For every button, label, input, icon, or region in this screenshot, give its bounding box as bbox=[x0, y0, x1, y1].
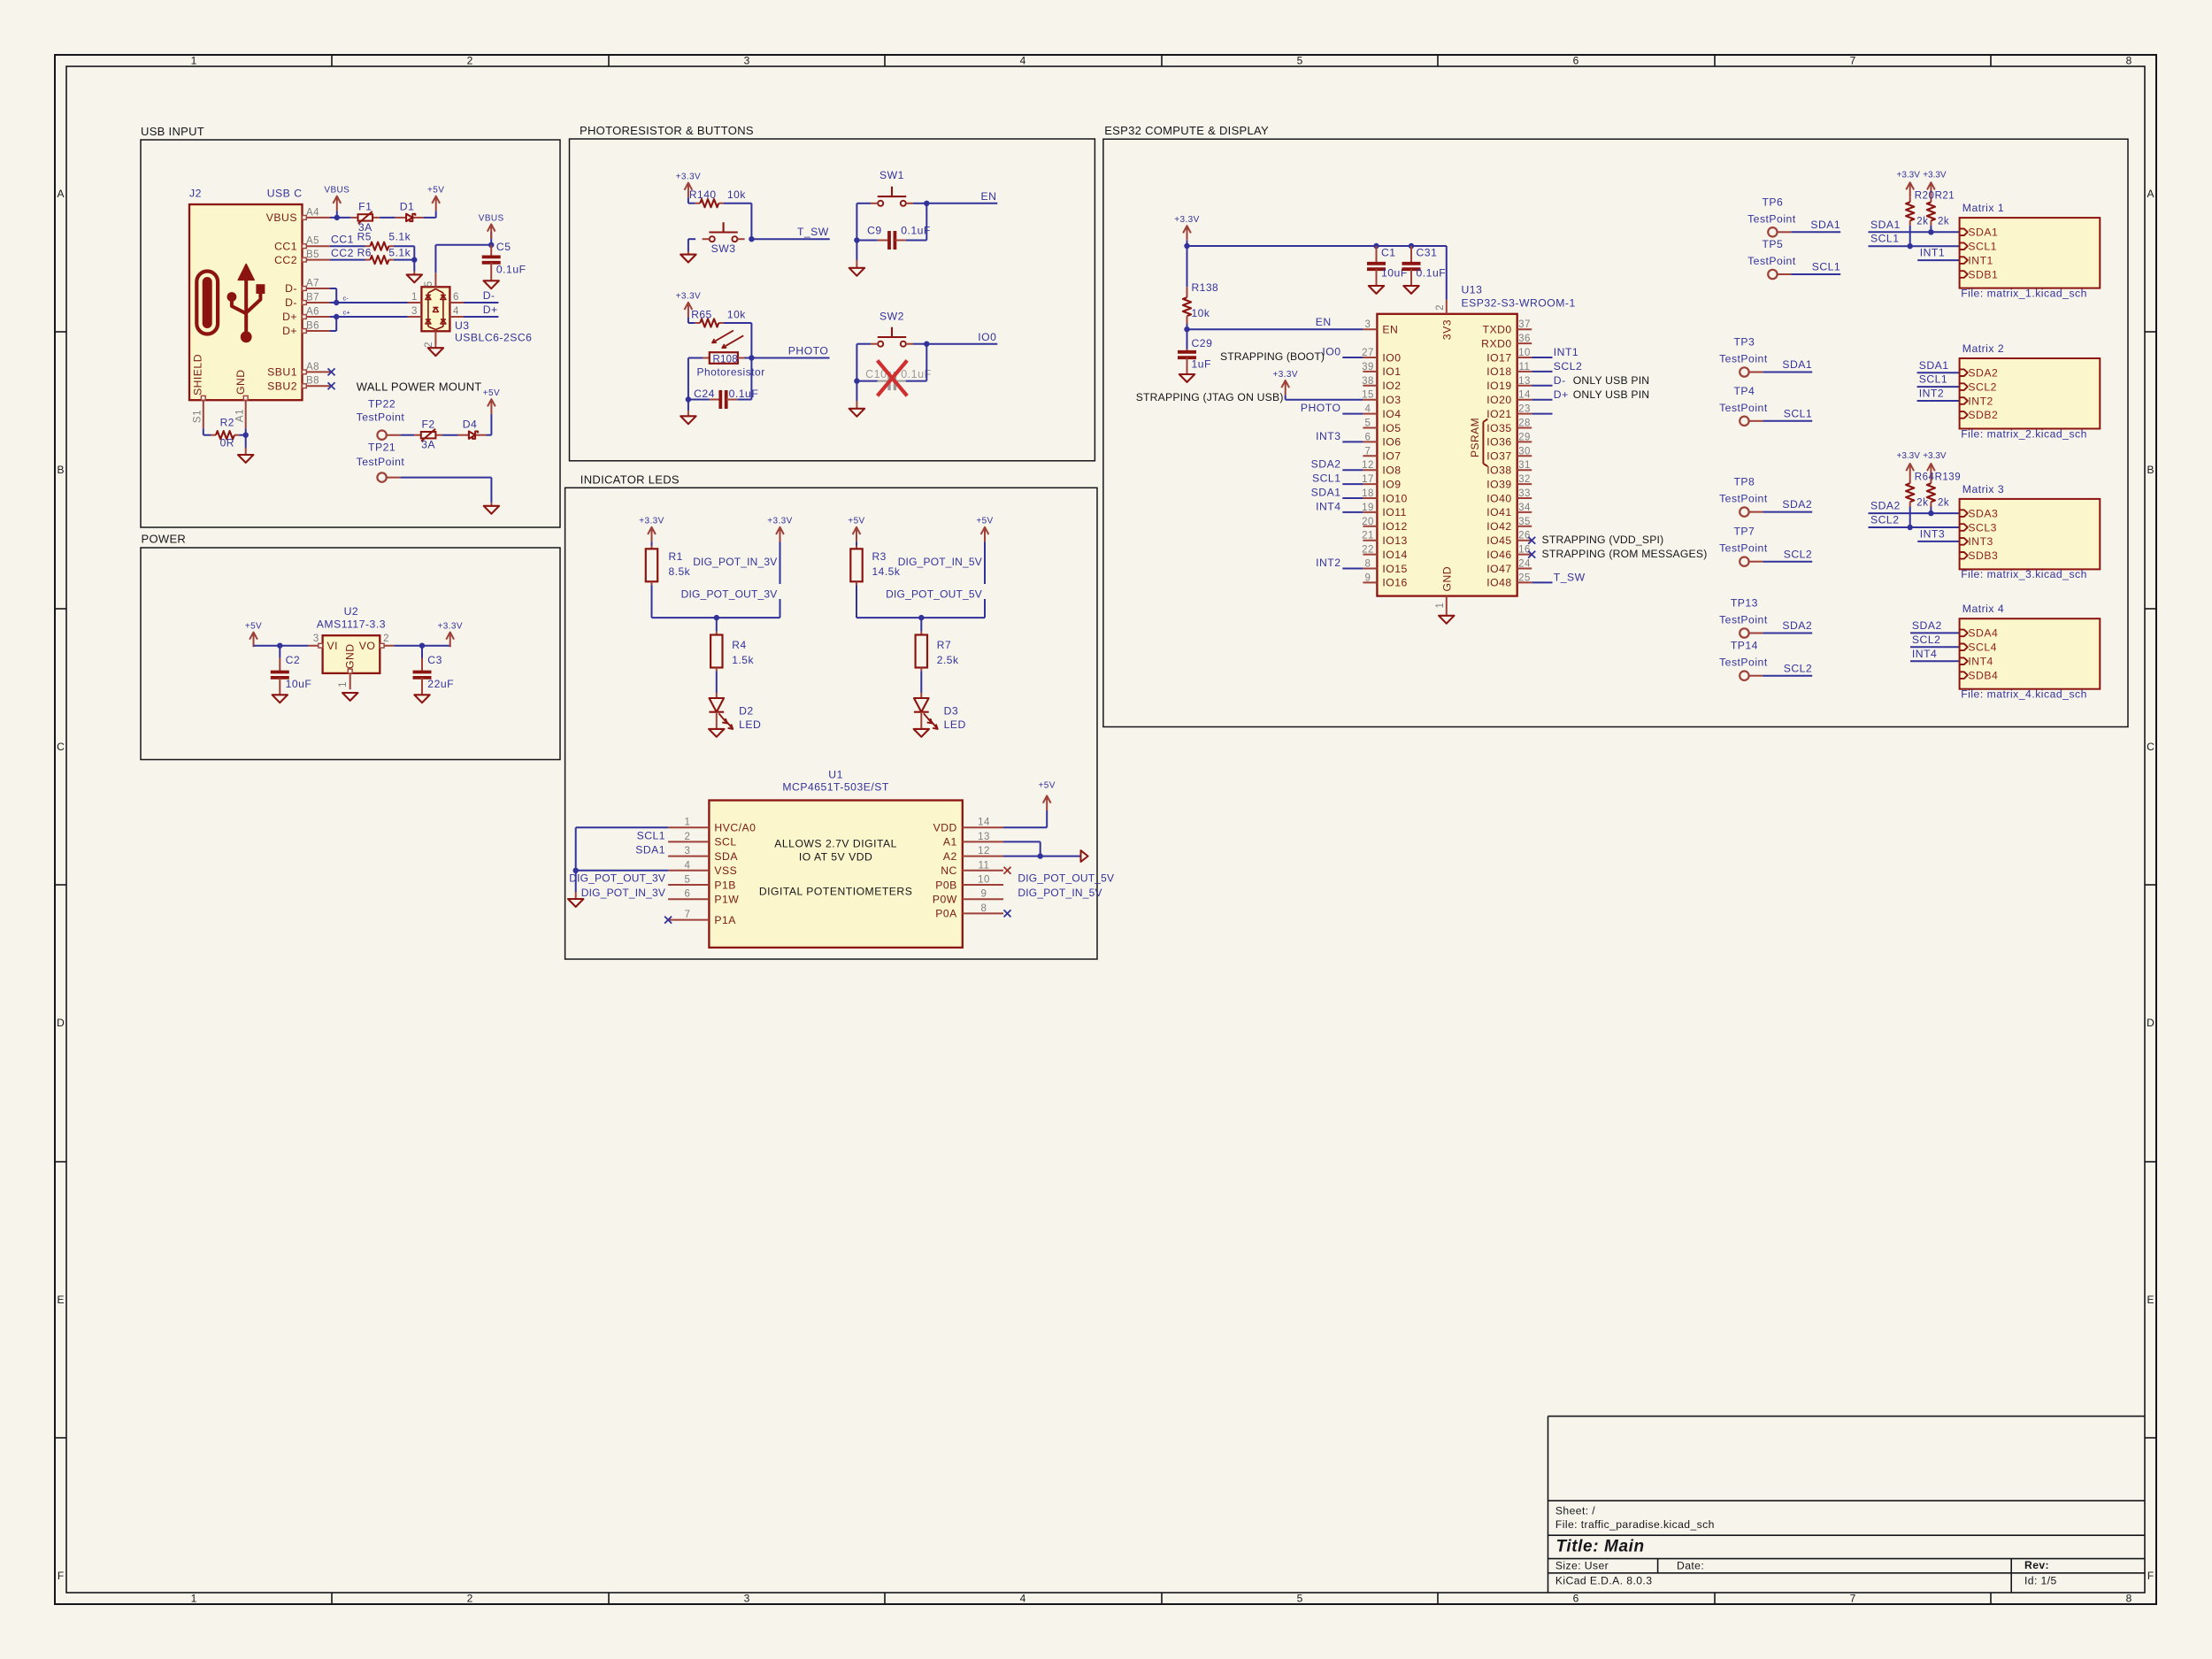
svg-text:P1A: P1A bbox=[714, 914, 736, 926]
wire R5 R6 to ground bbox=[394, 246, 414, 272]
svg-text:SDA: SDA bbox=[714, 850, 738, 863]
junction A2 bbox=[1038, 853, 1043, 858]
svg-text:File: matrix_1.kicad_sch: File: matrix_1.kicad_sch bbox=[1961, 287, 2087, 299]
svg-text:VSS: VSS bbox=[714, 864, 737, 877]
svg-text:R21: R21 bbox=[1935, 191, 1955, 202]
capacitor C9 0.1uF bbox=[856, 224, 930, 250]
svg-text:SDA2: SDA2 bbox=[1968, 367, 1998, 380]
power symbol +3.3V at R1 bbox=[639, 517, 664, 546]
svg-text:CC2: CC2 bbox=[331, 247, 354, 259]
svg-text:IO12: IO12 bbox=[1382, 520, 1407, 533]
net label INT4 to Matrix 4 bbox=[1910, 648, 1960, 661]
svg-text:IO9: IO9 bbox=[1382, 478, 1401, 490]
net label INT3 at U13 bbox=[1316, 430, 1363, 442]
svg-text:D-: D- bbox=[285, 296, 297, 309]
svg-text:INT3: INT3 bbox=[1920, 527, 1945, 540]
svg-text:SDB3: SDB3 bbox=[1968, 549, 1998, 562]
wire IO21 bbox=[1532, 413, 1552, 415]
svg-text:IO14: IO14 bbox=[1382, 549, 1407, 561]
resistor R6 5.1k bbox=[357, 246, 411, 264]
svg-text:RXD0: RXD0 bbox=[1481, 337, 1512, 349]
wire R108 left down to C24 bbox=[687, 358, 689, 400]
hierarchical sheet Matrix 2 bbox=[1960, 342, 2101, 440]
svg-text:R139: R139 bbox=[1935, 472, 1962, 482]
net label INT1 at U13 right bbox=[1532, 346, 1578, 358]
net label c- on D- wire bbox=[343, 295, 349, 303]
svg-text:F2: F2 bbox=[421, 418, 434, 430]
net label SCL2 at TP7 bbox=[1763, 548, 1812, 561]
no-connect P0A bbox=[1004, 910, 1011, 917]
wire R7 to D3 bbox=[920, 671, 922, 693]
svg-text:SBU2: SBU2 bbox=[267, 380, 297, 392]
svg-text:B8: B8 bbox=[306, 376, 319, 387]
svg-text:A: A bbox=[57, 188, 64, 200]
junction C2 bbox=[277, 643, 282, 649]
svg-text:3: 3 bbox=[313, 634, 319, 644]
no-connect NC pin11 bbox=[1004, 867, 1011, 874]
regulator U2 AMS1117-3.3 bbox=[309, 605, 395, 689]
net label INT2 to Matrix 2 bbox=[1917, 388, 1960, 401]
junction D- bbox=[334, 300, 339, 305]
svg-text:R6: R6 bbox=[357, 246, 372, 258]
svg-text:P0A: P0A bbox=[935, 908, 957, 920]
junction rail C1 bbox=[1373, 243, 1379, 249]
svg-text:SCL1: SCL1 bbox=[637, 829, 666, 841]
svg-text:WALL POWER MOUNT: WALL POWER MOUNT bbox=[357, 380, 482, 393]
svg-text:4: 4 bbox=[1365, 404, 1371, 415]
wire SW2 left to C10 bbox=[856, 344, 871, 401]
svg-text:35: 35 bbox=[1518, 517, 1531, 527]
svg-text:14: 14 bbox=[1518, 390, 1531, 401]
power symbol +3.3V at IO3 bbox=[1272, 370, 1363, 400]
svg-text:IO17: IO17 bbox=[1486, 351, 1511, 364]
led D3 bbox=[914, 693, 966, 731]
svg-text:3: 3 bbox=[744, 1593, 750, 1605]
svg-text:B7: B7 bbox=[306, 293, 319, 303]
svg-text:D4: D4 bbox=[463, 418, 478, 430]
net label c+ on D+ wire bbox=[343, 309, 351, 317]
svg-text:17: 17 bbox=[1362, 474, 1374, 485]
svg-text:C: C bbox=[2147, 741, 2154, 753]
svg-text:F: F bbox=[2147, 1570, 2154, 1582]
svg-text:SDA1: SDA1 bbox=[1782, 358, 1812, 371]
svg-text:3A: 3A bbox=[421, 439, 435, 451]
junction VSS gnd bbox=[573, 868, 579, 873]
svg-text:TP6: TP6 bbox=[1762, 196, 1783, 208]
svg-text:PHOTO: PHOTO bbox=[1301, 402, 1341, 414]
wire SW2 right / IO0 bbox=[913, 344, 926, 381]
svg-text:19: 19 bbox=[1362, 503, 1374, 513]
net label SCL2 at TP14 bbox=[1763, 662, 1812, 675]
svg-text:1: 1 bbox=[685, 818, 691, 828]
svg-text:8: 8 bbox=[1365, 559, 1371, 570]
net label DIG_POT_IN_5V bbox=[898, 541, 985, 584]
svg-text:2: 2 bbox=[1435, 304, 1446, 311]
svg-text:SCL1: SCL1 bbox=[1870, 233, 1900, 245]
svg-text:R65: R65 bbox=[691, 308, 712, 320]
svg-text:INT4: INT4 bbox=[1316, 500, 1340, 512]
net label DIG_POT_IN_3V at U1 bbox=[581, 887, 665, 899]
svg-text:TP7: TP7 bbox=[1733, 526, 1755, 538]
net label DIG_POT_OUT_3V at U1 bbox=[569, 872, 665, 884]
svg-text:3: 3 bbox=[411, 306, 418, 317]
net label SCL1 to Matrix 2 bbox=[1917, 373, 1960, 387]
svg-text:D+: D+ bbox=[483, 303, 498, 316]
net label DIG_POT_IN_5V at U1 bbox=[1018, 887, 1102, 899]
net label SDA1 at TP3 bbox=[1763, 358, 1812, 372]
svg-text:5: 5 bbox=[1297, 1593, 1303, 1605]
wire R65 to PHOTO node bbox=[724, 323, 752, 358]
svg-text:IO AT 5V VDD: IO AT 5V VDD bbox=[799, 850, 872, 863]
svg-text:TP22: TP22 bbox=[368, 398, 396, 411]
svg-text:POWER: POWER bbox=[142, 533, 187, 546]
svg-text:10: 10 bbox=[1518, 348, 1531, 358]
svg-text:A6: A6 bbox=[306, 307, 319, 318]
svg-text:SCL2: SCL2 bbox=[1870, 514, 1900, 526]
svg-text:+5V: +5V bbox=[848, 517, 864, 526]
net label SCL1 at U13 bbox=[1312, 472, 1363, 485]
junction C24 bbox=[686, 396, 691, 402]
svg-text:SDA2: SDA2 bbox=[1782, 619, 1812, 632]
svg-text:R140: R140 bbox=[689, 188, 717, 201]
svg-text:6: 6 bbox=[1573, 55, 1579, 67]
net label T_SW wire bbox=[751, 226, 829, 239]
svg-text:R5: R5 bbox=[357, 231, 372, 243]
net label DIG_POT_OUT_3V bbox=[681, 588, 780, 618]
net label D- wire and note bbox=[1532, 374, 1649, 387]
svg-text:+3.3V: +3.3V bbox=[1923, 451, 1947, 461]
ground at C24 bbox=[680, 400, 695, 425]
svg-text:DIG_POT_IN_5V: DIG_POT_IN_5V bbox=[898, 556, 982, 568]
svg-text:6: 6 bbox=[1573, 1593, 1579, 1605]
svg-text:File: traffic_paradise.kicad_s: File: traffic_paradise.kicad_sch bbox=[1555, 1518, 1715, 1531]
svg-text:IO7: IO7 bbox=[1382, 450, 1401, 463]
svg-text:C5: C5 bbox=[496, 241, 511, 253]
svg-text:0R: 0R bbox=[220, 437, 234, 449]
junction R139 bbox=[1928, 511, 1933, 516]
wire VBUS from J2 to fuse bbox=[330, 217, 351, 219]
svg-text:26: 26 bbox=[1518, 531, 1531, 541]
svg-text:IO1: IO1 bbox=[1382, 365, 1401, 378]
wire VDD to +5V bbox=[1003, 810, 1047, 827]
wire R1 to junction bbox=[652, 585, 780, 618]
ground at D3 bbox=[914, 729, 929, 737]
svg-text:SCL2: SCL2 bbox=[1968, 380, 1997, 393]
svg-text:USBLC6-2SC6: USBLC6-2SC6 bbox=[455, 332, 532, 344]
svg-text:EN: EN bbox=[1316, 316, 1332, 328]
no-connect SBU1 bbox=[328, 368, 335, 375]
svg-text:STRAPPING (BOOT): STRAPPING (BOOT) bbox=[1220, 350, 1325, 363]
svg-text:U2: U2 bbox=[344, 605, 359, 618]
svg-text:4: 4 bbox=[453, 306, 459, 317]
svg-text:DIG_POT_IN_3V: DIG_POT_IN_3V bbox=[581, 887, 665, 899]
svg-text:+3.3V: +3.3V bbox=[1174, 215, 1199, 225]
svg-text:SCL4: SCL4 bbox=[1968, 641, 1997, 654]
svg-text:File: matrix_2.kicad_sch: File: matrix_2.kicad_sch bbox=[1961, 427, 2087, 440]
svg-text:IO21: IO21 bbox=[1486, 408, 1511, 420]
svg-text:TP13: TP13 bbox=[1731, 597, 1758, 610]
svg-text:+5V: +5V bbox=[483, 388, 500, 398]
section box USB INPUT bbox=[141, 125, 560, 527]
resistor R3 14.5k bbox=[850, 546, 901, 586]
led D2 bbox=[709, 693, 761, 731]
svg-text:INT3: INT3 bbox=[1968, 535, 1993, 548]
wire SW1 right / EN bbox=[913, 204, 926, 241]
resistor R7 2.5k bbox=[916, 618, 959, 671]
net label DIG_POT_OUT_5V at U1 bbox=[1018, 872, 1114, 884]
svg-text:VBUS: VBUS bbox=[479, 213, 504, 223]
svg-text:SDA2: SDA2 bbox=[1782, 498, 1812, 511]
text STRAPPING (BOOT) bbox=[1220, 350, 1325, 363]
svg-text:TP4: TP4 bbox=[1733, 385, 1755, 397]
junction C3 bbox=[419, 643, 425, 649]
net label INT4 at U13 bbox=[1316, 500, 1363, 512]
ground at U13 bbox=[1439, 616, 1454, 624]
svg-text:11: 11 bbox=[979, 860, 990, 871]
svg-text:SCL: SCL bbox=[714, 836, 736, 849]
svg-text:P1W: P1W bbox=[714, 894, 739, 906]
svg-text:8: 8 bbox=[2126, 55, 2132, 67]
svg-text:IO41: IO41 bbox=[1486, 506, 1511, 518]
svg-text:Matrix 1: Matrix 1 bbox=[1962, 202, 2004, 214]
junction R64 bbox=[1908, 525, 1913, 530]
svg-text:SDA1: SDA1 bbox=[1870, 219, 1901, 231]
junction D+ bbox=[334, 314, 339, 319]
ground at C5 bbox=[484, 280, 499, 288]
ground at D2 bbox=[709, 729, 724, 737]
testpoint TP8 bbox=[1719, 476, 1768, 517]
power symbol +5V at DIG_POT_IN_5V bbox=[976, 517, 993, 542]
svg-text:SCL1: SCL1 bbox=[1312, 472, 1341, 485]
svg-text:C2: C2 bbox=[286, 654, 301, 666]
svg-text:Photoresistor: Photoresistor bbox=[697, 366, 765, 379]
section box POWER bbox=[141, 533, 560, 760]
svg-text:SDA1: SDA1 bbox=[1968, 227, 1998, 239]
svg-text:D2: D2 bbox=[739, 704, 754, 717]
svg-text:14: 14 bbox=[978, 818, 990, 828]
connector J2 USB C bbox=[189, 187, 330, 428]
svg-text:USB INPUT: USB INPUT bbox=[141, 125, 204, 138]
svg-text:10: 10 bbox=[978, 875, 990, 886]
svg-text:PHOTORESISTOR & BUTTONS: PHOTORESISTOR & BUTTONS bbox=[580, 124, 754, 137]
svg-text:IO6: IO6 bbox=[1382, 436, 1401, 449]
svg-text:D-: D- bbox=[285, 282, 297, 295]
net label DIG_POT_IN_3V bbox=[693, 541, 780, 584]
wire HVC/A0 VSS to ground bbox=[576, 827, 668, 892]
wire A2 dangling bbox=[1003, 850, 1088, 862]
power symbol +5V at D1 bbox=[427, 186, 444, 211]
svg-text:PSRAM: PSRAM bbox=[1469, 418, 1481, 457]
svg-text:PHOTO: PHOTO bbox=[788, 345, 829, 357]
svg-text:R2: R2 bbox=[220, 416, 234, 428]
svg-text:TestPoint: TestPoint bbox=[1719, 493, 1768, 505]
capacitor C31 0.1uF bbox=[1402, 246, 1447, 286]
net label SCL1 at U1 bbox=[637, 829, 666, 841]
svg-text:ALLOWS 2.7V DIGITAL: ALLOWS 2.7V DIGITAL bbox=[774, 838, 897, 850]
svg-text:22: 22 bbox=[1362, 545, 1374, 556]
svg-text:10k: 10k bbox=[1192, 307, 1210, 319]
svg-text:D+: D+ bbox=[282, 325, 297, 337]
svg-text:IO13: IO13 bbox=[1382, 534, 1407, 547]
svg-text:16: 16 bbox=[1518, 545, 1531, 556]
wire A1 to A2 bbox=[1003, 841, 1041, 856]
svg-text:+3.3V: +3.3V bbox=[676, 292, 701, 302]
svg-text:Id: 1/5: Id: 1/5 bbox=[2024, 1575, 2057, 1587]
svg-text:5.1k: 5.1k bbox=[388, 246, 411, 258]
wire SW3 left to ground bbox=[688, 239, 695, 251]
svg-text:TestPoint: TestPoint bbox=[1747, 212, 1796, 225]
wire F1 to D1 bbox=[380, 217, 396, 219]
svg-text:TestPoint: TestPoint bbox=[1719, 402, 1768, 414]
net label SDA1 to Matrix 1 bbox=[1869, 219, 1960, 233]
junction shield-gnd bbox=[243, 433, 249, 438]
svg-text:IO35: IO35 bbox=[1486, 422, 1511, 434]
svg-text:2k: 2k bbox=[1938, 498, 1949, 509]
svg-text:B: B bbox=[2147, 464, 2154, 476]
svg-text:+5V: +5V bbox=[427, 186, 444, 196]
svg-text:R4: R4 bbox=[732, 639, 746, 651]
svg-text:DIG_POT_IN_5V: DIG_POT_IN_5V bbox=[1018, 887, 1102, 899]
svg-text:IO8: IO8 bbox=[1382, 465, 1401, 477]
svg-text:A8: A8 bbox=[306, 362, 319, 373]
switch SW1 bbox=[871, 169, 913, 206]
svg-text:DIG_POT_OUT_5V: DIG_POT_OUT_5V bbox=[1018, 872, 1114, 884]
diode D1 bbox=[396, 201, 424, 222]
net label INT3 to Matrix 3 bbox=[1917, 527, 1959, 541]
svg-text:4: 4 bbox=[1020, 1593, 1026, 1605]
svg-text:TP8: TP8 bbox=[1733, 476, 1755, 488]
svg-text:LED: LED bbox=[739, 718, 761, 731]
svg-text:6: 6 bbox=[453, 292, 459, 303]
svg-text:R64: R64 bbox=[1915, 472, 1935, 482]
net label PHOTO wire bbox=[751, 345, 829, 358]
svg-text:2k: 2k bbox=[1916, 498, 1928, 509]
net label SCL1 at TP4 bbox=[1763, 407, 1812, 420]
wire R4 to D2 bbox=[716, 671, 718, 693]
svg-text:5.1k: 5.1k bbox=[388, 231, 411, 243]
no-connect SBU2 bbox=[328, 382, 335, 389]
svg-text:D: D bbox=[57, 1017, 65, 1029]
svg-text:S1: S1 bbox=[193, 410, 204, 423]
svg-text:Date:: Date: bbox=[1677, 1560, 1704, 1572]
net label SDA1 at U13 bbox=[1311, 487, 1363, 499]
svg-text:8: 8 bbox=[2126, 1593, 2132, 1605]
text STRAPPING (JTAG ON USB) bbox=[1136, 391, 1284, 403]
svg-text:SDB4: SDB4 bbox=[1968, 669, 1998, 681]
svg-text:TestPoint: TestPoint bbox=[1719, 657, 1768, 669]
section box ESP32 COMPUTE & DISPLAY bbox=[1103, 124, 2128, 726]
net label SDA1 to Matrix 2 bbox=[1917, 359, 1960, 373]
svg-text:A7: A7 bbox=[306, 279, 319, 289]
svg-text:SDA1: SDA1 bbox=[635, 844, 665, 856]
svg-text:C31: C31 bbox=[1417, 247, 1438, 259]
net label DIG_POT_OUT_5V bbox=[886, 588, 985, 618]
svg-text:P0B: P0B bbox=[935, 879, 957, 891]
diode D4 bbox=[458, 418, 487, 439]
power labels above R20 R21 bbox=[1896, 170, 1955, 227]
svg-text:F: F bbox=[58, 1570, 64, 1582]
svg-text:INT1: INT1 bbox=[1920, 247, 1945, 259]
svg-text:STRAPPING (VDD_SPI): STRAPPING (VDD_SPI) bbox=[1542, 534, 1664, 546]
svg-text:T_SW: T_SW bbox=[1554, 572, 1586, 584]
resistor R4 1.5k bbox=[710, 618, 754, 671]
text WALL POWER MOUNT bbox=[357, 380, 482, 393]
svg-text:SCL3: SCL3 bbox=[1968, 521, 1997, 534]
svg-text:SDA3: SDA3 bbox=[1968, 507, 1998, 519]
junction VBUS bbox=[334, 215, 340, 220]
wire F2 to D4 bbox=[442, 434, 457, 436]
wire TP22 to F2 bbox=[401, 434, 415, 436]
testpoint TP3 bbox=[1719, 336, 1768, 377]
capacitor C24 0.1uF bbox=[688, 358, 758, 410]
capacitor C2 10uF bbox=[271, 646, 312, 695]
svg-text:R1: R1 bbox=[669, 550, 683, 563]
svg-text:3: 3 bbox=[685, 846, 691, 856]
svg-text:STRAPPING (ROM MESSAGES): STRAPPING (ROM MESSAGES) bbox=[1542, 548, 1708, 560]
svg-text:D: D bbox=[2147, 1017, 2154, 1029]
resistor R1 8.5k bbox=[646, 546, 691, 586]
svg-text:SW1: SW1 bbox=[879, 169, 904, 181]
svg-text:IO36: IO36 bbox=[1486, 436, 1511, 449]
testpoint TP14 bbox=[1719, 640, 1768, 680]
svg-text:R7: R7 bbox=[937, 639, 951, 651]
svg-text:1: 1 bbox=[338, 681, 349, 687]
net label D+ at U3 bbox=[464, 303, 498, 317]
svg-text:13: 13 bbox=[1518, 376, 1531, 387]
junction R7 tap bbox=[918, 615, 924, 620]
junction EN bbox=[924, 201, 929, 206]
svg-text:D3: D3 bbox=[944, 704, 959, 717]
junction CC pulldown bbox=[411, 257, 417, 262]
svg-text:ESP32-S3-WROOM-1: ESP32-S3-WROOM-1 bbox=[1462, 297, 1576, 310]
svg-text:INT3: INT3 bbox=[1316, 430, 1340, 442]
svg-text:SCL2: SCL2 bbox=[1554, 360, 1583, 373]
capacitor C10 0.1uF crossed out bbox=[856, 360, 931, 396]
net label INT1 to Matrix 1 bbox=[1917, 247, 1959, 261]
svg-text:CC1: CC1 bbox=[331, 234, 354, 246]
svg-text:D+: D+ bbox=[1554, 388, 1569, 401]
svg-text:TestPoint: TestPoint bbox=[1719, 614, 1768, 626]
wire U3 pin5 to VBUS rail bbox=[435, 245, 491, 273]
svg-text:2.5k: 2.5k bbox=[937, 654, 959, 666]
svg-text:Matrix 2: Matrix 2 bbox=[1962, 342, 2004, 355]
svg-text:EN: EN bbox=[1382, 324, 1398, 336]
svg-text:IO15: IO15 bbox=[1382, 563, 1407, 575]
svg-text:NC: NC bbox=[941, 864, 957, 877]
svg-text:SDA2: SDA2 bbox=[1870, 500, 1901, 512]
svg-text:P0W: P0W bbox=[933, 894, 957, 906]
svg-text:12: 12 bbox=[1362, 460, 1374, 471]
hierarchical sheet Matrix 4 bbox=[1960, 603, 2101, 700]
svg-text:B: B bbox=[57, 464, 64, 476]
svg-text:File: matrix_4.kicad_sch: File: matrix_4.kicad_sch bbox=[1961, 688, 2087, 701]
svg-text:11: 11 bbox=[1519, 362, 1531, 373]
svg-text:28: 28 bbox=[1518, 419, 1531, 429]
testpoint TP13 bbox=[1719, 597, 1768, 638]
svg-text:C9: C9 bbox=[867, 224, 882, 236]
hierarchical sheet Matrix 1 bbox=[1960, 202, 2101, 299]
testpoint TP4 bbox=[1719, 385, 1768, 426]
resistor R2 0R bbox=[211, 416, 239, 449]
svg-text:1: 1 bbox=[191, 1593, 197, 1605]
capacitor C3 22uF bbox=[413, 646, 455, 695]
net label SDA1 at TP6 bbox=[1791, 219, 1840, 232]
junction R4 tap bbox=[714, 615, 719, 620]
svg-text:2: 2 bbox=[467, 55, 473, 67]
svg-text:7: 7 bbox=[1850, 55, 1856, 67]
power labels above R64 R139 bbox=[1896, 451, 1961, 508]
svg-text:12: 12 bbox=[978, 846, 990, 856]
